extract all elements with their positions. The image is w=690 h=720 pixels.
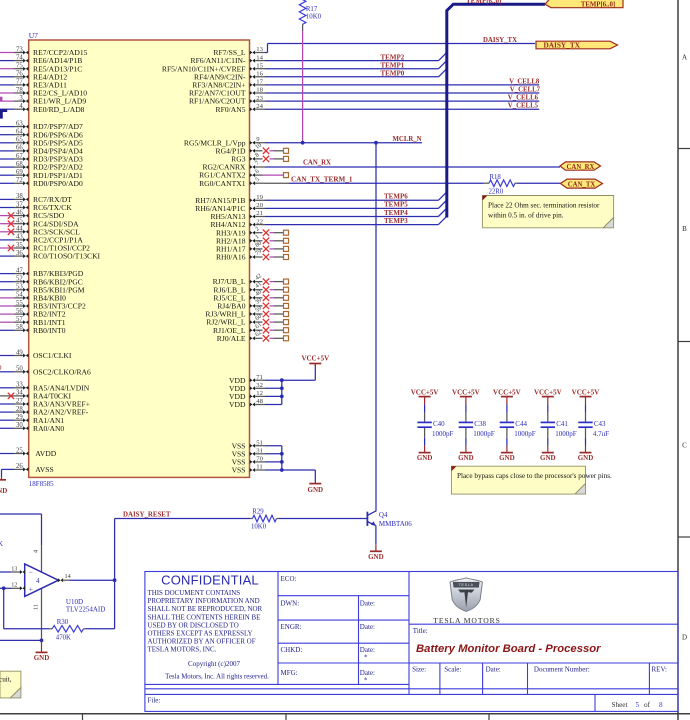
U7 pin 58 RB0/INT0 (left) [0, 329, 14, 331]
wire R30 feedback to + input [4, 628, 50, 630]
U7 pin 23 RF1/AN6/C2OUT (right) [250, 99, 255, 103]
wire V_CELL5 [265, 108, 539, 110]
U7 pin 13 RF7/SS_L (right) [250, 51, 255, 55]
U7 pin 70 VSS (right) [250, 460, 255, 464]
U7 pin 35 RC1/T1OSI/CCP2 (left) [0, 247, 14, 249]
U7 pin 74 RE6/AD14/P1B (left) [0, 60, 14, 62]
svg-text:RJ0/ALE: RJ0/ALE [217, 334, 246, 343]
svg-text:21: 21 [256, 210, 263, 217]
U7 pin 31 VSS (right) [250, 452, 255, 456]
svg-text:V_CELL7: V_CELL7 [510, 87, 541, 94]
svg-text:1000pF: 1000pF [555, 430, 577, 438]
U7 pin 67 RD3/PSP3/AD3 (left) [0, 158, 14, 160]
svg-text:RB0/INT0: RB0/INT0 [33, 326, 66, 335]
U7 pin 11 VSS (right) [250, 468, 255, 472]
svg-text:10K0: 10K0 [251, 523, 267, 530]
U7 pin 14 RF6/AN11/C1IN- (right) [250, 59, 255, 63]
port CAN_TX [561, 179, 603, 188]
U7 pin 52 RB6/KBI2/PGC (left) [0, 281, 14, 283]
svg-text:ENGR:: ENGR: [281, 623, 302, 631]
U7 pin 44 RC3/SCK/SCL (left) [0, 231, 14, 233]
U7 pin 45 RC4/SDI/SDA (left) [0, 223, 14, 225]
svg-text:72: 72 [16, 177, 23, 184]
wire TEMP3 [265, 224, 438, 226]
wire VCC to C43 [585, 404, 587, 412]
svg-text:Battery Monitor Board - Proces: Battery Monitor Board - Processor [416, 643, 601, 655]
junction pin11/GND [40, 639, 44, 643]
svg-text:470K: 470K [56, 634, 71, 641]
U7 pin 9 RG5/MCLR_L/Vpp (right) [250, 141, 255, 145]
svg-text:Tesla Motors, Inc. All rights: Tesla Motors, Inc. All rights reserved. [165, 674, 269, 681]
svg-text:TESLA MOTORS, INC.: TESLA MOTORS, INC. [148, 646, 217, 654]
U7 pin 78 RE2/CS_L/AD10 (left) [0, 92, 14, 94]
ground symbol GND (U7 VSS) [314, 483, 316, 484]
svg-text:66: 66 [16, 145, 23, 152]
svg-text:GND: GND [308, 486, 324, 494]
wire R17 to MCLR junction [302, 24, 304, 31]
U7 pin 6 RG1/CANTX2 (right, no-connect) [250, 173, 255, 177]
zone tick bottom 2 [285, 714, 287, 720]
svg-text:OSC2/CLKO/RA6: OSC2/CLKO/RA6 [33, 367, 91, 376]
svg-text:DWN:: DWN: [281, 599, 300, 607]
U10D pin 13 (inverting input) [0, 571, 11, 573]
svg-text:V_CELL6: V_CELL6 [508, 95, 539, 102]
wire CAN_TX stub [265, 182, 289, 184]
capacitor C44 1000pF [506, 413, 508, 422]
U7 pin 10 RG4/P1D (right, no-connect) [250, 149, 255, 153]
svg-text:TEMP[6..0]: TEMP[6..0] [581, 2, 615, 9]
note: 22 Ohm termination [482, 196, 613, 228]
svg-text:18: 18 [256, 87, 263, 94]
wire TEMP4 [265, 216, 438, 218]
svg-text:Title:: Title: [413, 627, 428, 635]
svg-text:Date:: Date: [486, 665, 501, 673]
svg-text:Scale:: Scale: [444, 665, 461, 673]
wire VSS rail [281, 446, 283, 470]
svg-text:OSC1/CLKI: OSC1/CLKI [33, 351, 72, 360]
svg-text:DAISY_TX: DAISY_TX [483, 37, 517, 44]
svg-text:12: 12 [256, 390, 263, 397]
svg-text:VCC+5V: VCC+5V [301, 354, 329, 362]
svg-text:GND: GND [34, 654, 50, 662]
U7 pin 76 RE4/AD12 (left) [0, 76, 14, 78]
svg-text:*: * [364, 677, 368, 685]
U7 pin 77 RE3/AD11 (left) [0, 84, 14, 86]
resistor R18 22R0 [484, 182, 490, 184]
U7 pin 33 RA5/AN4/LVDIN (left) [0, 387, 14, 389]
zone tick bottom 1 [82, 714, 84, 720]
svg-text:TLV2254AID: TLV2254AID [66, 606, 105, 614]
ground symbol GND (C40) [424, 446, 426, 453]
bus port TEMP[6..0] [545, 0, 623, 8]
svg-text:TESLA: TESLA [459, 583, 474, 587]
svg-text:SHALL NOT BE REPRODUCED, NOR: SHALL NOT BE REPRODUCED, NOR [148, 605, 263, 613]
junction output/DAISY_RESET [113, 578, 117, 582]
svg-text:Date:: Date: [360, 599, 375, 607]
U7 pin 34 RA4/T0CKI (left) [0, 395, 14, 397]
U10D pin 14 (output) [58, 578, 63, 582]
wire C40 to GND [424, 438, 426, 446]
svg-text:3: 3 [19, 95, 23, 102]
svg-text:Document Number:: Document Number: [534, 665, 590, 673]
U7 pin 42 RJ7/UB_L (right, no-connect) [250, 280, 255, 284]
svg-text:55: 55 [16, 300, 23, 307]
svg-text:R17: R17 [306, 6, 318, 13]
U7 pin 26 AVSS (left) [2, 468, 15, 470]
U7 pin 30 RA0/AN0 (left) [0, 427, 14, 429]
svg-text:RC0/T1OSO/T13CKI: RC0/T1OSO/T13CKI [33, 252, 101, 261]
U7 pin 32 VDD (right) [250, 386, 255, 390]
U7 pin 59 RJ3/WRH_L (right, no-connect) [250, 312, 255, 316]
svg-text:TEMP1: TEMP1 [381, 61, 405, 69]
U7 pin 4 RE0/RD_L/AD8 (left) [0, 108, 14, 110]
U7 pin 73 RE7/CCP2/AD15 (left) [0, 52, 14, 54]
wire R18 to CAN_TX flag [518, 182, 561, 184]
svg-text:DAISY_RESET: DAISY_RESET [123, 512, 171, 519]
svg-text:MFG:: MFG: [281, 669, 298, 677]
power symbol VCC+5V (C38) [460, 396, 472, 398]
wire C41 to GND [547, 438, 549, 446]
svg-text:38: 38 [16, 193, 23, 200]
wire CAN_TX to R18 [289, 182, 484, 184]
svg-text:C43: C43 [594, 420, 606, 428]
svg-text:D: D [682, 634, 687, 642]
svg-text:Place 22 Ohm sec. termination: Place 22 Ohm sec. termination resistor [488, 201, 600, 209]
svg-text:36: 36 [16, 250, 23, 257]
svg-text:67: 67 [16, 153, 23, 160]
U7 pin 47 RB7/KBI3/PGD (left) [0, 273, 14, 275]
svg-text:35: 35 [16, 242, 23, 249]
svg-text:VCC+5V: VCC+5V [572, 388, 600, 396]
U7 pin 54 RB4/KBI0 (left) [0, 297, 14, 299]
svg-text:20: 20 [256, 202, 263, 209]
svg-text:U7: U7 [29, 31, 38, 40]
svg-text:65: 65 [16, 137, 23, 144]
svg-text:B: B [682, 225, 687, 233]
svg-text:68: 68 [16, 161, 23, 168]
svg-text:RE0/RD_L/AD8: RE0/RD_L/AD8 [33, 105, 85, 114]
U7 pin 68 RD2/PSP2/AD2 (left) [0, 166, 14, 168]
U7 pin 20 RH6/AN14/P1C (right) [250, 206, 255, 210]
svg-text:CHKD:: CHKD: [281, 646, 303, 654]
U7 pin 46 RC5/SDO (left) [0, 215, 14, 217]
svg-text:C40: C40 [433, 420, 445, 428]
svg-text:RG0/CANTX1: RG0/CANTX1 [199, 179, 246, 188]
wire V_CELL7 [265, 92, 539, 94]
U7 pin 18 RF2/AN7/C1OUT (right) [250, 91, 255, 95]
resistor R17 10K0 (cut at top) [299, 0, 306, 24]
svg-text:R30: R30 [57, 619, 69, 626]
port CAN_RX [560, 162, 601, 170]
U7 pin 3 RE1/WR_L/AD9 (left) [0, 100, 14, 102]
svg-text:CONFIDENTIAL: CONFIDENTIAL [161, 573, 259, 588]
svg-text:CAN_TX_TERM_1: CAN_TX_TERM_1 [291, 176, 353, 184]
svg-text:31: 31 [256, 448, 263, 455]
svg-text:VCC+5V: VCC+5V [411, 388, 439, 396]
svg-text:PROPRIETARY INFORMATION AND: PROPRIETARY INFORMATION AND [148, 597, 260, 605]
svg-text:GND: GND [458, 454, 474, 462]
svg-text:GND: GND [0, 487, 7, 495]
svg-text:USED BY OR DISCLOSED TO: USED BY OR DISCLOSED TO [148, 621, 239, 629]
svg-text:VCC+5V: VCC+5V [493, 388, 521, 396]
junction op-amp + input feedback [2, 586, 6, 590]
wire TEMP2 [265, 60, 439, 62]
svg-text:GND: GND [368, 553, 384, 561]
svg-text:10K0: 10K0 [306, 14, 322, 21]
svg-text:GND: GND [417, 454, 433, 462]
svg-text:1000pF: 1000pF [514, 430, 536, 438]
svg-text:34: 34 [16, 390, 23, 397]
svg-text:14: 14 [65, 573, 71, 580]
U7 pin 80 RH1/A17 (right, no-connect) [250, 247, 255, 251]
wire MCLR_N to Q4 collector [375, 143, 377, 511]
U7 pin 69 RD1/PSP1/AD1 (left) [0, 174, 14, 176]
junction MCLR/Q4 collector [374, 141, 378, 145]
svg-text:53: 53 [16, 284, 23, 291]
svg-text:51: 51 [256, 439, 263, 446]
svg-text:57: 57 [16, 316, 23, 323]
svg-text:C38: C38 [474, 420, 486, 428]
svg-text:26: 26 [16, 463, 23, 470]
svg-text:V_CELL8: V_CELL8 [509, 78, 540, 85]
svg-text:Date:: Date: [360, 623, 375, 631]
note fragment (cut at left edge) [0, 671, 21, 698]
bus entry fragment magenta (left edge) [0, 97, 2, 102]
ground symbol GND (C38) [465, 446, 467, 453]
U7 pin 62 RJ0/ALE (right, no-connect) [250, 336, 255, 340]
svg-text:Q4: Q4 [379, 511, 388, 519]
svg-text:1000pF: 1000pF [432, 430, 454, 438]
svg-text:11: 11 [33, 604, 40, 610]
svg-text:58: 58 [16, 324, 23, 331]
svg-text:−: − [29, 568, 33, 577]
svg-text:28: 28 [16, 406, 23, 413]
svg-text:VDD: VDD [229, 400, 246, 409]
wire RF7 to DAISY_TX (step up) [265, 52, 268, 54]
svg-text:of: of [644, 701, 651, 709]
U7 pin 51 VSS (right) [250, 444, 255, 448]
svg-text:TEMP0: TEMP0 [381, 70, 405, 78]
U7 pin 1 RH2/A18 (right, no-connect) [250, 239, 255, 243]
wire C44 to GND [506, 438, 508, 446]
wire C43 to GND [585, 438, 587, 446]
svg-text:*: * [364, 654, 368, 662]
AVSS GND symbol (cut at left edge) [1, 477, 3, 480]
svg-text:17: 17 [256, 79, 263, 86]
svg-text:File:: File: [148, 697, 161, 705]
U7 pin 71 VDD (right) [250, 378, 255, 382]
svg-text:32: 32 [256, 382, 263, 389]
ground symbol GND (C44) [506, 446, 508, 453]
U7 pin 25 AVDD (left) [0, 453, 14, 455]
svg-text:48: 48 [256, 398, 263, 405]
ground symbol GND (C41) [547, 446, 549, 453]
power symbol VCC+5V (C44) [501, 396, 513, 398]
U7 pin 19 RH7/AN15/P1B (right) [250, 198, 255, 202]
zone tick bottom 3 [488, 714, 490, 720]
svg-text:Copyright (c)2007: Copyright (c)2007 [188, 660, 240, 668]
svg-text:REV:: REV: [652, 665, 667, 673]
svg-text:25: 25 [16, 447, 23, 454]
svg-text:4: 4 [36, 577, 40, 585]
U7 pin 50 OSC2/CLKO/RA6 (left) [0, 371, 14, 373]
wire TEMP5 [265, 207, 438, 209]
svg-text:22: 22 [256, 218, 263, 225]
capacitor C43 4.7uF [585, 413, 587, 422]
svg-text:27: 27 [16, 398, 23, 405]
U7 pin 27 RA3/AN3/VREF+ (left) [0, 403, 14, 405]
svg-text:SHALL THE CONTENTS HEREIN BE: SHALL THE CONTENTS HEREIN BE [148, 613, 261, 621]
U7 pin 17 RF3/AN8/C2IN+ (right) [250, 83, 255, 87]
svg-text:50: 50 [16, 366, 23, 373]
U7 pin 57 RB1/INT1 (left) [0, 321, 14, 323]
wire VCC feed to op-amp pin 4 [0, 513, 42, 515]
U7 pin 72 RD0/PSP0/AD0 (left) [0, 182, 14, 184]
title block frame [145, 572, 678, 712]
svg-text:75: 75 [16, 63, 23, 70]
svg-text:4: 4 [19, 103, 23, 110]
U7 pin 15 RF5/AN10/C1IN+/CVREF (right) [250, 67, 255, 71]
wire output down to R30 [114, 580, 116, 629]
svg-text:4.7uF: 4.7uF [593, 430, 609, 438]
svg-text:13: 13 [256, 46, 263, 53]
svg-text:OTHERS EXCEPT AS EXPRESSLY: OTHERS EXCEPT AS EXPRESSLY [148, 630, 253, 638]
wire MCLR_N [265, 142, 422, 144]
wire VCC to C40 [424, 404, 426, 412]
IC U7 PIC18F8585 body [29, 40, 250, 477]
svg-text:DAISY_TX: DAISY_TX [544, 40, 581, 49]
U7 pin 36 RC0/T1OSO/T13CKI (left) [0, 255, 14, 257]
power symbol VCC+5V (C43) [580, 396, 592, 398]
U7 pin 79 RH0/A16 (right, no-connect) [250, 255, 255, 259]
U7 pin 37 RC6/TX/CK (left) [0, 207, 14, 209]
U7 pin 43 RC2/CCP1/P1A (left) [0, 239, 14, 241]
svg-text:TEMP2: TEMP2 [381, 53, 405, 61]
ground symbol GND (U10D) [41, 640, 43, 652]
svg-text:1000pF: 1000pF [473, 430, 495, 438]
svg-text:Sheet: Sheet [612, 701, 628, 709]
svg-text:VCC+5V: VCC+5V [452, 388, 480, 396]
svg-text:78: 78 [16, 87, 23, 94]
wire VCC to C38 [465, 404, 467, 412]
svg-text:Place bypass caps close to the: Place bypass caps close to the processor… [457, 472, 612, 480]
svg-text:C: C [682, 442, 687, 450]
svg-text:R18: R18 [490, 174, 502, 181]
U7 pin 7 RG2/CANRX (right) [250, 165, 255, 169]
wire output up to DAISY_RESET [114, 519, 116, 581]
svg-text:C41: C41 [556, 420, 568, 428]
U7 pin 8 RG3 (right, no-connect) [250, 157, 255, 161]
svg-text:TEMP[6..0]: TEMP[6..0] [466, 0, 501, 5]
svg-text:CAN_RX: CAN_RX [303, 159, 331, 166]
capacitor C38 1000pF [465, 413, 467, 422]
capacitor C40 1000pF [424, 413, 426, 422]
svg-text:GND: GND [540, 454, 556, 462]
wire TEMP1 [265, 68, 439, 70]
svg-text:23: 23 [256, 95, 263, 102]
svg-text:43: 43 [16, 234, 23, 241]
wire C38 to GND [465, 438, 467, 446]
svg-text:TESLA MOTORS: TESLA MOTORS [433, 616, 500, 625]
power symbol VCC+5V (C41) [542, 396, 554, 398]
U7 pin 75 RE5/AD13/P1C (left) [0, 68, 14, 70]
svg-text:GND: GND [578, 454, 594, 462]
port DAISY_TX [536, 41, 618, 49]
U7 pin 39 RJ4/BA0 (right, no-connect) [250, 304, 255, 308]
U7 pin 60 RJ2/WRL_L (right, no-connect) [250, 320, 255, 324]
svg-text:TEMP3: TEMP3 [384, 217, 408, 225]
svg-text:77: 77 [16, 79, 23, 86]
U7 pin 61 RJ1/OE_L (right, no-connect) [250, 328, 255, 332]
svg-text:63: 63 [16, 120, 23, 127]
resistor R30 470K [86, 628, 115, 630]
svg-text:69: 69 [16, 169, 23, 176]
svg-text:V_CELL5: V_CELL5 [508, 103, 539, 110]
svg-text:RH0/A16: RH0/A16 [216, 253, 246, 262]
U7 pin 41 RJ6/LB_L (right, no-connect) [250, 288, 255, 292]
wire DAISY_RESET [115, 518, 250, 520]
svg-text:AUTHORIZED BY AN OFFICER OF: AUTHORIZED BY AN OFFICER OF [148, 638, 256, 646]
svg-text:76: 76 [16, 71, 23, 78]
wire VCC to C41 [547, 404, 549, 412]
svg-text:74: 74 [16, 54, 23, 61]
svg-text:MMBTA06: MMBTA06 [379, 520, 412, 528]
U7 pin 65 RD5/PSP5/AD5 (left) [0, 142, 14, 144]
ground symbol GND (Q4) [375, 544, 377, 551]
op-amp U10D TLV2254AID [41, 545, 43, 572]
wire R29 to Q4 base [279, 518, 367, 520]
svg-text:VCC+5V: VCC+5V [534, 388, 562, 396]
svg-text:19: 19 [256, 194, 263, 201]
svg-text:AVDD: AVDD [35, 449, 56, 458]
U7 pin 66 RD4/PSP4/AD4 (left) [0, 150, 14, 152]
svg-text:30: 30 [16, 422, 23, 429]
U7 pin 24 RF0/AN5 (right) [250, 107, 255, 111]
U7 pin 2 RH3/A19 (right, no-connect) [250, 231, 255, 235]
wire TEMP6 [265, 199, 438, 201]
wire TEMP0 [265, 76, 439, 78]
power symbol VCC+5V (C40) [419, 396, 431, 398]
svg-text:73: 73 [16, 46, 23, 53]
svg-text:R29: R29 [252, 508, 264, 515]
svg-text:O: O [0, 364, 2, 372]
svg-text:52: 52 [16, 276, 23, 283]
svg-text:MCLR_N: MCLR_N [393, 136, 422, 143]
svg-text:12: 12 [11, 582, 17, 589]
svg-text:THIS DOCUMENT CONTAINS: THIS DOCUMENT CONTAINS [148, 589, 241, 597]
U7 pin 53 RB5/KBI1/PGM (left) [0, 289, 14, 291]
svg-text:44: 44 [16, 226, 23, 233]
U7 pin 63 RD7/PSP7/AD7 (left) [0, 126, 14, 128]
transistor Q4 MMBTA06 [366, 512, 368, 526]
wire op-amp output [70, 579, 115, 581]
svg-text:22R0: 22R0 [489, 189, 504, 196]
svg-text:4: 4 [33, 550, 40, 553]
svg-text:49: 49 [16, 349, 23, 356]
U7 pin 64 RD6/PSP6/AD6 (left) [0, 134, 14, 136]
svg-text:Size:: Size: [412, 665, 426, 673]
U7 pin 16 RF4/AN9/C2IN- (right) [250, 75, 255, 79]
svg-text:C44: C44 [515, 420, 527, 428]
svg-text:CAN_RX: CAN_RX [567, 164, 595, 171]
svg-text:47: 47 [16, 267, 23, 274]
wire VDD rail [281, 380, 283, 404]
power symbol VCC+5V (U7 VDD) [314, 364, 316, 367]
svg-text:18F8585: 18F8585 [29, 480, 54, 488]
svg-text:A: A [682, 54, 687, 62]
U7 pin 55 RB3/INT3/CCP2 (left) [0, 305, 14, 307]
resistor R29 10K0 [250, 518, 253, 520]
